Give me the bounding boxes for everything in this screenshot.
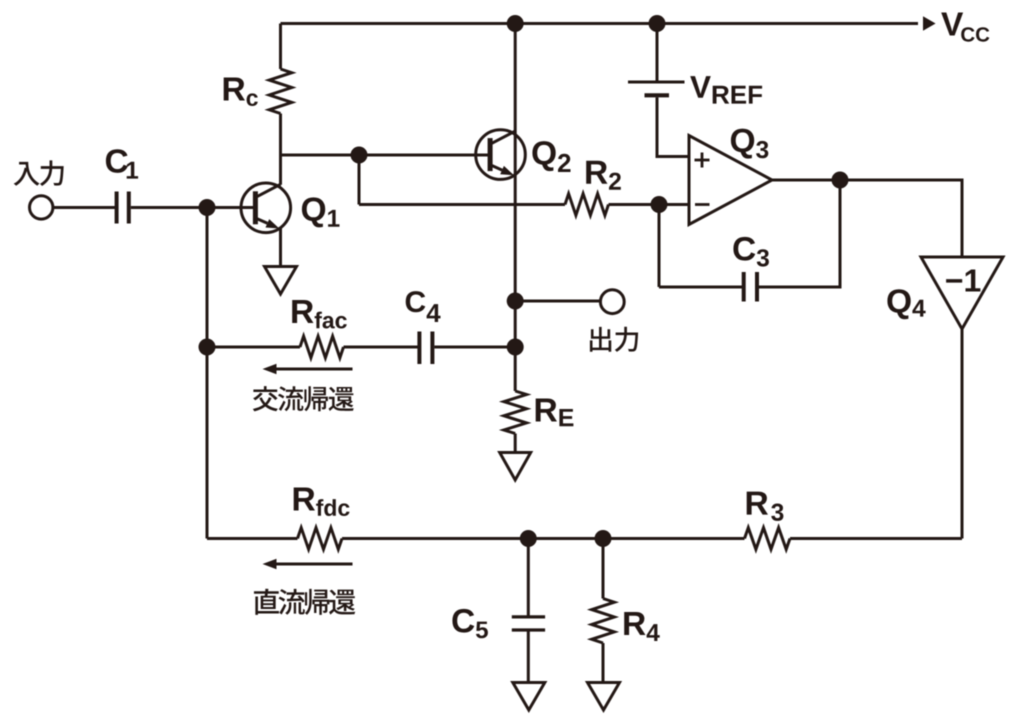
ground below RE [500,453,531,481]
wire: Rc bottom to Q1 collector [279,114,282,185]
resistor R4 [592,599,615,644]
label Q2 [532,141,570,172]
junction: op-amp output / C3 feedback [832,172,849,189]
wire: RE to ground [514,434,517,453]
label 交流帰還 (AC feedback) [253,386,278,411]
label Q1 [302,197,340,227]
label C1 [106,149,138,178]
capacitor C1 [115,192,119,224]
wire: node to R4 [602,539,605,599]
AC feedback direction arrow [277,368,353,371]
junction: bottom wire / R4 [595,530,612,547]
wire: Rfdc to R3 [342,537,745,540]
transistor Q1 [241,183,291,233]
capacitor C4 [417,332,421,365]
label RE [536,399,574,427]
op-amp plus input marking [695,159,710,162]
wire: R2 left segment [359,203,565,206]
wire: output terminal stub [515,300,601,303]
junction: Vcc rail / Q2 collector [507,15,524,32]
label Q4 [887,289,925,319]
resistor R2 [565,194,609,216]
wire: R3 to right rail [790,537,962,540]
junction: input node / left feedback rail [199,199,216,216]
label 直流帰還 (DC feedback) [254,589,279,615]
junction: inverting input node [651,196,668,213]
resistor Rfac [300,336,344,358]
label Q3 [731,129,768,159]
wire: AC feedback left segment [207,346,300,349]
junction: Vcc rail / VREF [649,15,666,32]
op-amp minus input marking [695,203,710,206]
transistor Q2 [476,130,526,180]
input terminal circle [30,196,53,219]
wire: op-amp output to Q4 [772,180,962,257]
wire: C3 right segment up to output node [759,180,840,287]
wire: Q1 collector node to Q2 base [281,154,490,157]
label Rfac [292,300,347,329]
capacitor C5 [512,615,545,618]
ground below R4 [588,683,620,711]
ground below C5 [513,683,545,711]
junction: emitter node to AC feedback [507,339,524,356]
wire: R4 to ground [602,643,605,683]
inverter Q4 triangle [921,257,1003,329]
label Rfdc [294,488,350,517]
label R4 [624,612,660,641]
wire: Vcc rail to VREF [656,24,659,81]
wire: C3 left segment [659,286,744,289]
ground below Q1 emitter [265,267,297,295]
output terminal circle [600,290,624,314]
wire: C4 to emitter column [434,346,515,349]
capacitor C3 [742,272,746,302]
label C5 [452,609,488,638]
wire: R2 to op-amp inverting input [609,203,690,206]
label C3 [733,237,769,267]
wire: input terminal to C1 [52,206,115,209]
label VREF [690,76,762,104]
Vcc rail arrowhead [923,16,936,31]
op-amp Q3 triangle [689,136,772,225]
label 入力 (input) [14,162,40,186]
battery VREF negative plate [645,93,670,97]
resistor R3 [745,528,791,550]
label R2 [586,161,621,190]
wire: Rc column from Vcc rail [279,24,282,70]
battery VREF positive plate [628,81,685,84]
wire: C1 to Q1 base [131,206,256,209]
junction: bottom wire / C5 [520,530,537,547]
label C4 [406,291,441,322]
resistor RE [504,391,527,434]
wire: Q1 emitter to ground [279,228,282,268]
wire: C5 to ground [527,630,530,683]
wire: node to C5 [527,539,530,617]
junction: emitter node to output terminal [507,293,524,310]
DC feedback direction arrow [277,563,353,566]
wire: bottom feedback left segment [207,537,298,540]
resistor Rfdc [298,528,343,550]
wire: Vcc top rail [281,22,919,25]
wire: node down to R2 level [358,155,361,205]
label Rc [224,78,258,107]
wire: Q4 output down right rail [961,329,964,539]
junction: left rail / AC feedback [199,339,216,356]
wire: Rfac to C4 [344,346,420,349]
label -1 inside Q4 [946,270,980,292]
wire: VREF to op-amp non-inverting input [657,97,689,156]
resistor Rc [269,69,292,114]
label R3 [747,492,784,521]
wire: inverting node down to C3 [658,205,661,288]
label 出力 (output) [590,327,611,352]
net label Vcc [941,13,989,42]
wire: Q2 collector to Vcc rail (continuous through Q2 to RE) [514,24,517,392]
junction: Q1 collector / Q2 base wire [351,147,368,164]
wire: left feedback rail [206,208,209,539]
